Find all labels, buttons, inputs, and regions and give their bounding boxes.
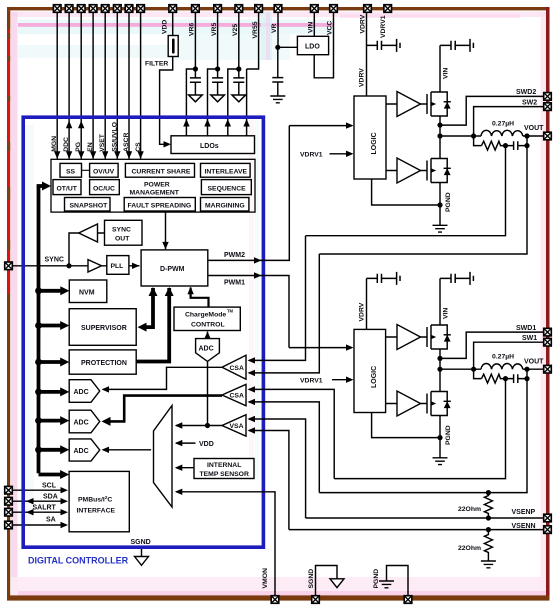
NVM [69, 280, 107, 303]
svg-text:DDC: DDC [63, 137, 70, 152]
pin SDA [5, 497, 13, 505]
svg-text:INTERLEAVE: INTERLEAVE [205, 169, 248, 176]
svg-text:CSA: CSA [230, 393, 244, 400]
border bottom [7, 595, 550, 600]
resistor R4 22Ohm [484, 530, 492, 561]
wire mux out to ADC3 [103, 449, 151, 451]
wire sense drop ch1 a [334, 379, 505, 479]
link SS to OV/UV [82, 169, 90, 171]
wire SWD1 [440, 332, 544, 358]
wire PG [80, 13, 82, 159]
bus arrow into power management [37, 184, 42, 188]
INTERNAL TEMP SENSOR [194, 459, 254, 479]
svg-text:NVM: NVM [79, 290, 95, 297]
svg-text:SEQUENCE: SEQUENCE [208, 185, 247, 192]
svg-text:PGND: PGND [373, 569, 380, 589]
ground PGND1 [439, 438, 441, 458]
ground R4 [481, 561, 496, 568]
svg-text:VR: VR [271, 23, 278, 33]
wire VSA out to mux [176, 425, 222, 427]
svg-text:VSET: VSET [99, 133, 106, 152]
wire sense drop ch2 b [319, 146, 527, 254]
transistor Q1 high ch2 [427, 88, 451, 121]
ADC1 [69, 380, 100, 403]
ADC2 [69, 410, 100, 433]
pin SA [5, 521, 13, 529]
svg-text:OUT: OUT [115, 236, 130, 243]
wire MGN [56, 13, 58, 159]
capacitor C-VR6 [194, 69, 196, 95]
svg-text:VDRV: VDRV [358, 302, 365, 321]
svg-text:OV/UV: OV/UV [93, 169, 115, 176]
buffer high-side ch1 [397, 325, 421, 350]
capacitor C-VDRV1 + ground [367, 277, 397, 279]
svg-text:0.27µH: 0.27µH [492, 354, 514, 361]
top-left control pin wires into power management [54, 13, 144, 159]
wire PGND pin [387, 566, 409, 597]
svg-text:PWM1: PWM1 [224, 279, 245, 286]
node sync [66, 263, 71, 268]
pin VOUT2 [544, 132, 552, 140]
wire VDRV [366, 13, 368, 96]
thick data bus [35, 182, 69, 480]
pin SW1 [544, 338, 552, 346]
ADC3 [69, 439, 100, 461]
svg-text:SS/UVLO: SS/UVLO [111, 122, 118, 152]
bus arrow to ADC3 [35, 446, 42, 453]
pin SALRT [5, 508, 13, 516]
bus arrow to PROTECTION [35, 359, 42, 366]
svg-text:ASCR: ASCR [123, 132, 130, 151]
wire VSENN to VSA- [249, 431, 289, 530]
svg-text:SUPERVISOR: SUPERVISOR [81, 325, 127, 332]
pin VR6 [192, 5, 200, 13]
pin ASCR [125, 5, 133, 13]
svg-text:TEMP SENSOR: TEMP SENSOR [200, 471, 249, 478]
pin CS [137, 5, 145, 13]
svg-text:CURRENT SHARE: CURRENT SHARE [132, 169, 191, 176]
wire CSA2+ from ch1 [249, 389, 334, 478]
svg-text:PWM2: PWM2 [224, 252, 245, 259]
SUPERVISOR [69, 309, 136, 346]
mux [154, 406, 173, 508]
thick wire CSA2 out to ADC2 [106, 396, 222, 422]
pin V25 [235, 5, 243, 13]
svg-text:VR55: VR55 [252, 21, 259, 38]
wire sense drop ch2 a [306, 146, 506, 236]
wire VCC to LDO bottom [314, 13, 333, 78]
svg-text:FAULT SPREADING: FAULT SPREADING [128, 202, 192, 209]
wire SW2 [474, 107, 544, 136]
wire SCL [12, 489, 66, 491]
wire SA [12, 524, 66, 526]
PMBus interface box [69, 471, 129, 531]
CSA amp 2 [222, 384, 246, 406]
D-PWM [141, 250, 208, 286]
pin VMON [271, 596, 279, 604]
wire PWM2 into LOGIC [289, 125, 352, 127]
wire VIN pin to LDO [313, 13, 315, 36]
svg-text:VR5: VR5 [211, 23, 218, 36]
bus arrow to SUPERVISOR [35, 322, 42, 329]
PLL [107, 256, 129, 275]
wire PWM1 [208, 276, 289, 348]
wire EN [92, 13, 94, 159]
SEQUENCE [201, 180, 251, 195]
svg-text:ADC: ADC [74, 389, 89, 396]
wire PM to D-PWM [165, 212, 167, 249]
wire SW1 [474, 342, 544, 369]
inductor L1 0.27uH [481, 364, 523, 370]
svg-text:LDO: LDO [305, 44, 320, 51]
svg-text:VOUT: VOUT [524, 358, 544, 365]
bus arrow to ADC1 [35, 389, 42, 396]
transistor Q3 high ch1 [427, 321, 451, 354]
wire VIN net ch1 [439, 278, 441, 320]
svg-text:SGND: SGND [131, 539, 151, 546]
svg-text:EN: EN [87, 142, 94, 152]
ChargeMode CONTROL box [174, 307, 240, 330]
capacitor C-VR5 [217, 69, 219, 95]
svg-text:INTERNAL: INTERNAL [207, 462, 241, 469]
svg-text:PGND: PGND [445, 425, 452, 445]
svg-text:CSA: CSA [230, 365, 244, 372]
wire PWM1 into LOGIC [289, 347, 352, 349]
svg-text:SW1: SW1 [522, 335, 537, 342]
transistor Q4 low ch1 [427, 387, 451, 420]
OC/UC [90, 180, 120, 195]
pin VR5 [214, 5, 222, 13]
VR6/VR5/V25 rail caps [183, 13, 258, 136]
wire VIN net ch2 [439, 45, 441, 87]
wire CSA2- from ch1 [249, 402, 319, 493]
thick wire D-PWM to SUPERVISOR [146, 288, 153, 327]
node on ch1 sense b [486, 490, 491, 495]
resistor R1 + capacitor C1 feedback [474, 369, 482, 378]
bus arrow to NVM [36, 288, 41, 293]
SYNC OUT buffer B1 [79, 224, 98, 242]
LOGIC U2 [354, 96, 386, 179]
svg-text:PGND: PGND [445, 192, 452, 212]
svg-text:SNAPSHOT: SNAPSHOT [70, 202, 109, 209]
svg-text:VOUT: VOUT [524, 125, 544, 132]
wire SALRT [12, 511, 66, 513]
svg-text:VSENN: VSENN [512, 523, 536, 530]
svg-text:V25: V25 [232, 24, 239, 36]
wire CSA1+ from ch2 [249, 236, 306, 361]
svg-text:LOGIC: LOGIC [371, 366, 378, 388]
svg-text:MARGINING: MARGINING [205, 202, 245, 209]
svg-text:MGN: MGN [51, 136, 58, 152]
svg-text:LOGIC: LOGIC [371, 132, 378, 154]
FAULT SPREADING [124, 198, 195, 212]
VSA amp [222, 415, 246, 437]
wire VSET [104, 13, 106, 159]
CSA amp 1 [222, 355, 246, 379]
svg-text:VIN: VIN [443, 68, 450, 79]
MARGINING [201, 198, 249, 212]
svg-text:VDRV: VDRV [360, 14, 367, 33]
LOGIC U3 [354, 329, 386, 412]
svg-text:0.27µH: 0.27µH [492, 120, 514, 127]
border left brown lower [7, 294, 10, 601]
capacitor C-V25 [238, 69, 240, 95]
svg-text:SYNC: SYNC [112, 227, 131, 234]
buffer low-side ch2 [397, 158, 421, 183]
PROTECTION [69, 350, 136, 374]
svg-text:22Ohm: 22Ohm [458, 506, 481, 513]
svg-text:SYNC: SYNC [45, 256, 64, 263]
wire VR6 [194, 13, 196, 69]
OT/UT [53, 180, 81, 195]
ground PGND earth [379, 581, 394, 588]
wire PWM2 [208, 126, 289, 261]
svg-text:VSENP: VSENP [512, 509, 536, 516]
wire DDC [68, 13, 70, 159]
svg-text:PLL: PLL [111, 263, 124, 270]
wire phase node ch1 [439, 354, 441, 388]
pin MGN [53, 5, 61, 13]
border top [7, 7, 550, 10]
wire ADC pentagon tail [207, 361, 209, 425]
SYNC OUT box [105, 220, 143, 245]
svg-text:MANAGEMENT: MANAGEMENT [130, 190, 180, 197]
wire VMON to mux [176, 492, 275, 596]
filter F1 [168, 36, 178, 57]
svg-text:ChargeMode: ChargeMode [185, 312, 226, 319]
ground PGND2 [439, 205, 441, 225]
LDO [297, 36, 328, 54]
wire sense drop ch1 b [319, 379, 527, 493]
svg-text:D-PWM: D-PWM [160, 266, 185, 273]
wire phase node ch2 [439, 121, 441, 155]
svg-text:SCL: SCL [42, 483, 57, 490]
svg-text:DIGITAL CONTROLLER: DIGITAL CONTROLLER [28, 555, 129, 565]
pin SCL [5, 486, 13, 494]
svg-text:LDOs: LDOs [200, 143, 219, 150]
svg-text:POWER: POWER [144, 182, 170, 189]
wire CSA1 out to D-PWM node and ADC1 [103, 367, 222, 389]
svg-text:TM: TM [227, 309, 234, 314]
pin VR55 [255, 5, 263, 13]
pin PGND [404, 596, 412, 604]
svg-text:PMBus/I2C: PMBus/I2C [78, 495, 112, 504]
bus arrow to ADC2 [35, 417, 42, 424]
pin VCC [330, 5, 338, 13]
pin SS/UVLO [114, 5, 122, 13]
transistor Q2 low ch2 [427, 154, 451, 187]
svg-text:ADC: ADC [74, 419, 89, 426]
svg-text:VSA: VSA [230, 423, 244, 430]
SNAPSHOT [65, 198, 111, 212]
svg-text:ADC: ADC [74, 448, 89, 455]
capacitor C-VR [277, 47, 279, 96]
svg-text:VDRV1: VDRV1 [300, 152, 323, 159]
wire VOUT row ch1 [440, 368, 481, 370]
power management block [51, 159, 255, 212]
blue controller box [23, 117, 263, 547]
svg-text:PG: PG [75, 142, 82, 152]
svg-text:OC/UC: OC/UC [93, 185, 115, 192]
pin DDC [65, 5, 73, 13]
wire ASCR [128, 13, 130, 159]
resistor R3 22Ohm [484, 493, 492, 518]
svg-text:ADC: ADC [199, 346, 214, 353]
LDOs block [171, 136, 255, 154]
svg-text:CS: CS [135, 142, 142, 152]
buffer low-side ch1 [397, 391, 421, 416]
wire V25 [238, 13, 240, 69]
bus arrow into PMBus [39, 473, 62, 477]
inductor L2 0.27uH [481, 130, 523, 136]
pin VDD [169, 5, 177, 13]
svg-text:VIN: VIN [308, 22, 315, 33]
svg-text:VR6: VR6 [189, 23, 196, 36]
wire VDD into mux [176, 442, 196, 444]
svg-text:SALRT: SALRT [33, 505, 57, 512]
wire VDD [160, 13, 173, 144]
svg-text:VDD: VDD [199, 441, 214, 448]
buffer high-side ch2 [397, 92, 421, 117]
svg-text:FILTER: FILTER [145, 61, 168, 68]
wire VSENP [306, 517, 544, 519]
pin SWD1 [544, 328, 552, 336]
pin VSET [101, 5, 109, 13]
svg-text:SS: SS [66, 169, 76, 176]
wire VOUT row ch2 [440, 135, 481, 137]
pin VIN [311, 5, 319, 13]
svg-text:SDA: SDA [43, 494, 58, 501]
pin EN [89, 5, 97, 13]
buffer B2 pll input [88, 260, 102, 272]
wire VR [277, 13, 279, 47]
svg-text:VDRV: VDRV [358, 68, 365, 87]
CURRENT SHARE [125, 163, 194, 177]
wire SGND pin [316, 566, 338, 597]
wire sync-out to sync node [69, 233, 105, 266]
wire ChargeMode to D-PWM [191, 288, 209, 308]
wire SDA [12, 500, 66, 502]
ground SGND analog [330, 579, 344, 588]
wire PGND ch2 [372, 179, 440, 205]
wire VDRV ch1 [366, 278, 368, 329]
wire VSENP to VSA+ [249, 419, 306, 518]
thick wire PROTECTION to D-PWM [136, 288, 169, 362]
OV/UV [90, 163, 119, 177]
svg-text:SWD1: SWD1 [516, 325, 536, 332]
svg-text:22Ohm: 22Ohm [458, 545, 481, 552]
wire VR55 [247, 13, 259, 69]
svg-text:SA: SA [46, 517, 56, 524]
svg-text:SW2: SW2 [522, 99, 537, 106]
capacitor C-VIN1 + ground [440, 277, 470, 279]
svg-text:OT/UT: OT/UT [57, 185, 78, 192]
SS [60, 163, 82, 177]
INTERLEAVE [201, 163, 251, 177]
wire CS [140, 13, 142, 159]
pin VSENP [544, 514, 552, 522]
pin VR [274, 5, 282, 13]
wire ADC pentagon to ChargeMode [207, 332, 209, 339]
svg-text:CONTROL: CONTROL [191, 322, 225, 329]
top rail labels [189, 14, 387, 38]
wire SWD2 [440, 96, 544, 125]
wire CSA1- from ch2 [249, 254, 319, 373]
resistor R2 + capacitor C2 feedback [474, 136, 482, 146]
pin PG [77, 5, 85, 13]
svg-text:SWD2: SWD2 [516, 89, 536, 96]
svg-text:SGND: SGND [308, 569, 315, 589]
pin SW2 [544, 103, 552, 111]
VDD wire + filter [145, 13, 178, 148]
wire temp sensor to mux [176, 467, 194, 469]
svg-text:INTERFACE: INTERFACE [77, 508, 116, 515]
pin VOUT1 [544, 365, 552, 373]
pin VDRV [364, 5, 372, 13]
wire SYNC [12, 265, 88, 267]
VR node, LDO U-LDO, VIN/VCC wires [270, 13, 333, 103]
svg-text:VDRV1: VDRV1 [380, 15, 387, 38]
capacitor C-VDRV2 + ground [367, 44, 397, 46]
svg-text:PROTECTION: PROTECTION [81, 360, 127, 367]
border left red [7, 10, 10, 294]
wire PGND ch1 [372, 413, 440, 438]
wire VR5 [217, 13, 219, 69]
svg-text:VCC: VCC [327, 21, 334, 35]
svg-text:VMON: VMON [262, 568, 269, 588]
wire SS/UVLO [116, 13, 118, 159]
wire VSENN [289, 529, 544, 531]
capacitor C-VIN2 + ground [440, 44, 470, 46]
LDO riser wires [186, 69, 195, 136]
pin SWD2 [544, 93, 552, 101]
pin SGND [312, 596, 320, 604]
ADC pentagon U-ADC [196, 339, 220, 362]
pin SYNC [5, 262, 13, 270]
pin VSENN [544, 526, 552, 534]
border right maroon [546, 7, 550, 600]
svg-text:VIN: VIN [443, 308, 450, 319]
pin labels MGN DDC PG EN VSET SS/UVLO ASCR CS [51, 122, 142, 152]
svg-text:VDRV1: VDRV1 [300, 377, 323, 384]
pin VDRV1 [384, 5, 392, 13]
svg-text:VDD: VDD [162, 20, 169, 34]
